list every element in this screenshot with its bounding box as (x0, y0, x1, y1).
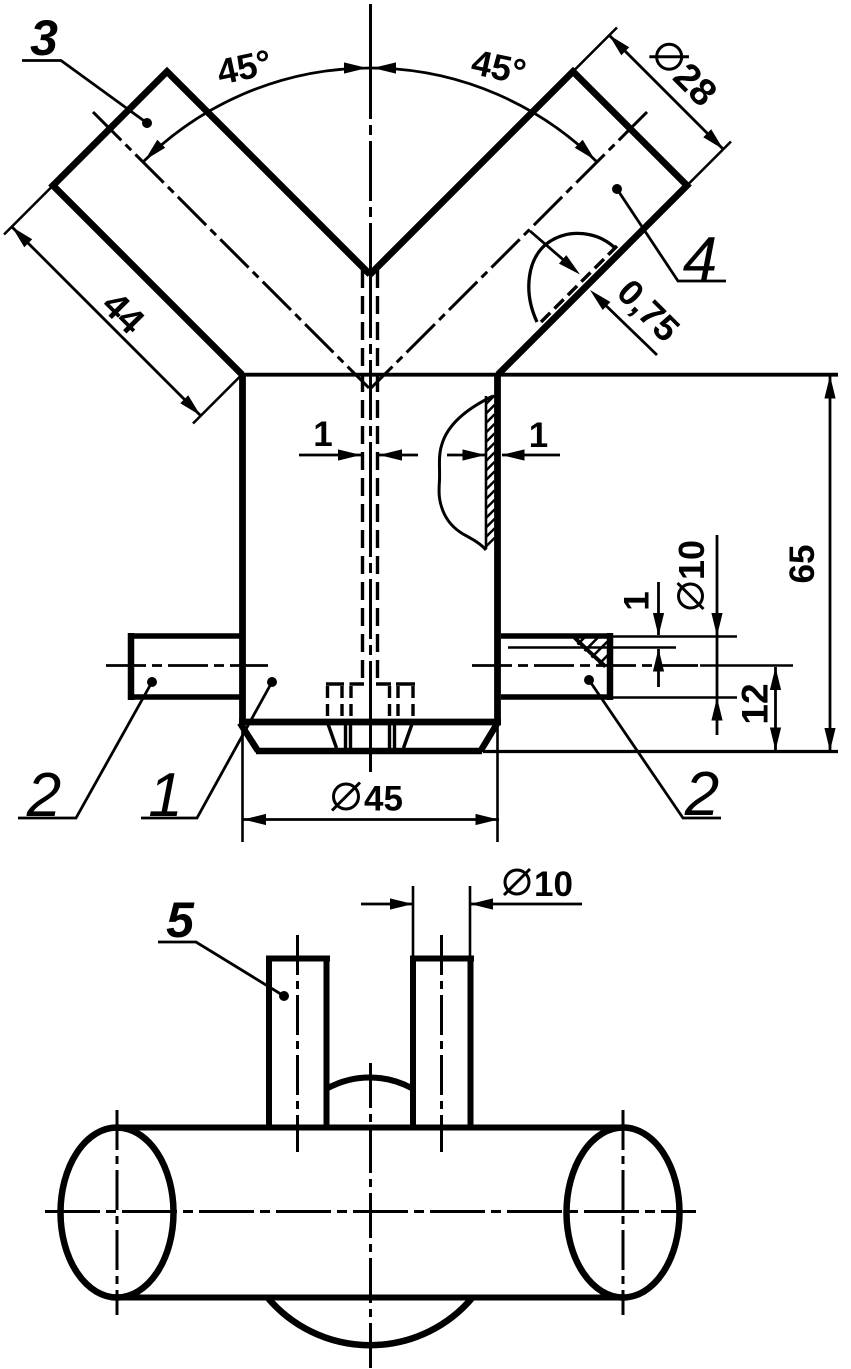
dimension text d10 bottom (504, 865, 573, 904)
svg-text:3: 3 (30, 10, 58, 66)
right tube centerline (440, 935, 443, 1152)
right side tube centerline (472, 664, 700, 667)
svg-text:2: 2 (26, 761, 61, 830)
dimension 65 line (829, 376, 832, 752)
svg-text:10: 10 (671, 540, 712, 580)
left side tube item 2 (128, 633, 135, 700)
dimension d28 extension lines (573, 28, 731, 186)
dimension d28 line (609, 35, 724, 150)
bottom view left tube item 5 (266, 956, 330, 962)
right side tube bore line (508, 646, 610, 649)
body top shoulder line (239, 373, 838, 377)
dimension text 45 deg right (468, 41, 530, 92)
leader label 5 (158, 942, 284, 996)
body bottom edge (239, 719, 501, 726)
left ellipse centerline (116, 1110, 119, 1315)
right ellipse end (567, 1128, 680, 1298)
extension of tube centerline for dim 12 (700, 664, 793, 667)
hidden tube lines through flare (328, 724, 412, 748)
leader label 2 left (18, 682, 152, 818)
dimension text d10 (right) (671, 540, 712, 609)
dimension text 1 (tube wall) (618, 591, 657, 610)
body left wall (239, 375, 246, 722)
slot bottom jogs (350, 682, 392, 685)
dimension 12 line (774, 667, 777, 751)
dimension text 12 (735, 683, 776, 724)
svg-text:1: 1 (313, 415, 332, 454)
dimension 44 extension lines (4, 186, 242, 424)
dimension 44 line (12, 227, 201, 416)
left branch tube item 3 outline (53, 72, 370, 375)
svg-text:4: 4 (683, 225, 717, 294)
bottom flare trapezoid (240, 723, 498, 751)
leader label 3 (22, 61, 147, 124)
weld pointer arrow (upper) (530, 231, 574, 269)
horizontal centerline bottom view (45, 1210, 696, 1213)
dimension d45 extension lines (243, 724, 498, 842)
weld wedge hatching (578, 636, 610, 665)
dimension d10 bottom line (361, 903, 582, 906)
dimension 1 small line (657, 582, 660, 687)
body right wall (494, 375, 501, 722)
local section wavy boundary on right wall (439, 396, 493, 550)
svg-text:2: 2 (684, 760, 719, 829)
svg-text:1: 1 (529, 416, 548, 455)
dimension 65 extension line bottom (483, 750, 838, 753)
leader label 2 right (589, 680, 721, 818)
weld local wavy dome on right branch tube (529, 233, 614, 322)
dimension d10 bottom: extension lines (413, 886, 470, 958)
dimension 0,75 leader (595, 295, 657, 355)
local section hatching on right wall (486, 395, 495, 546)
dimension text d28 (643, 33, 725, 115)
dimension text 0,75 (609, 271, 688, 350)
central slot hidden lines (363, 270, 378, 684)
left ellipse end (61, 1128, 174, 1298)
leader label 4 (617, 189, 726, 281)
local section inner boundary line (485, 396, 488, 549)
dimension d10 right side: extension line bottom (613, 696, 737, 699)
right ellipse centerline (622, 1110, 625, 1315)
svg-text:5: 5 (166, 892, 195, 948)
svg-text:65: 65 (783, 545, 822, 584)
vertical centerline bottom view (369, 1063, 372, 1368)
left branch tube axis (dash-dot) (93, 112, 369, 388)
dimension text 45 deg left (213, 41, 275, 92)
svg-text:45: 45 (364, 780, 403, 819)
weld wedge diagonal at right side tube end (574, 637, 606, 667)
svg-text:10: 10 (534, 865, 573, 904)
dimension text 65 (783, 545, 822, 584)
dimension text d45 (332, 780, 403, 819)
body circle top arc (328, 1077, 412, 1088)
angular dimension arc 45-45 (143, 68, 597, 162)
vertical centerline of body (369, 4, 372, 772)
dimension 1 at slot (299, 454, 418, 457)
weld seam dashed strip on right branch tube (541, 246, 617, 322)
bottom view right tube item 5 (410, 956, 474, 962)
svg-text:1: 1 (148, 761, 182, 830)
cylinder top edge (117, 1125, 623, 1131)
right side tube item 2 (607, 633, 614, 700)
body circle bottom arc (268, 1298, 473, 1346)
dimension 1 at wall (447, 454, 560, 457)
dimension d45 line (243, 818, 500, 821)
hidden tube hole left (dashed) (326, 682, 344, 685)
cylinder bottom edge (117, 1295, 623, 1301)
dimension d10 line (716, 535, 719, 735)
left side tube centerline (106, 664, 268, 667)
svg-text:12: 12 (735, 683, 776, 724)
svg-text:1: 1 (618, 591, 657, 610)
hidden tube hole right (dashed) (396, 682, 415, 685)
leader label 1 (141, 682, 272, 818)
right branch tube axis (dash-dot) (371, 112, 647, 388)
dimension text 44 (94, 284, 152, 342)
right branch tube item 4 outline (370, 72, 687, 375)
dimension 1 at right side tube: extension lines (612, 637, 737, 648)
left tube centerline (296, 935, 299, 1152)
